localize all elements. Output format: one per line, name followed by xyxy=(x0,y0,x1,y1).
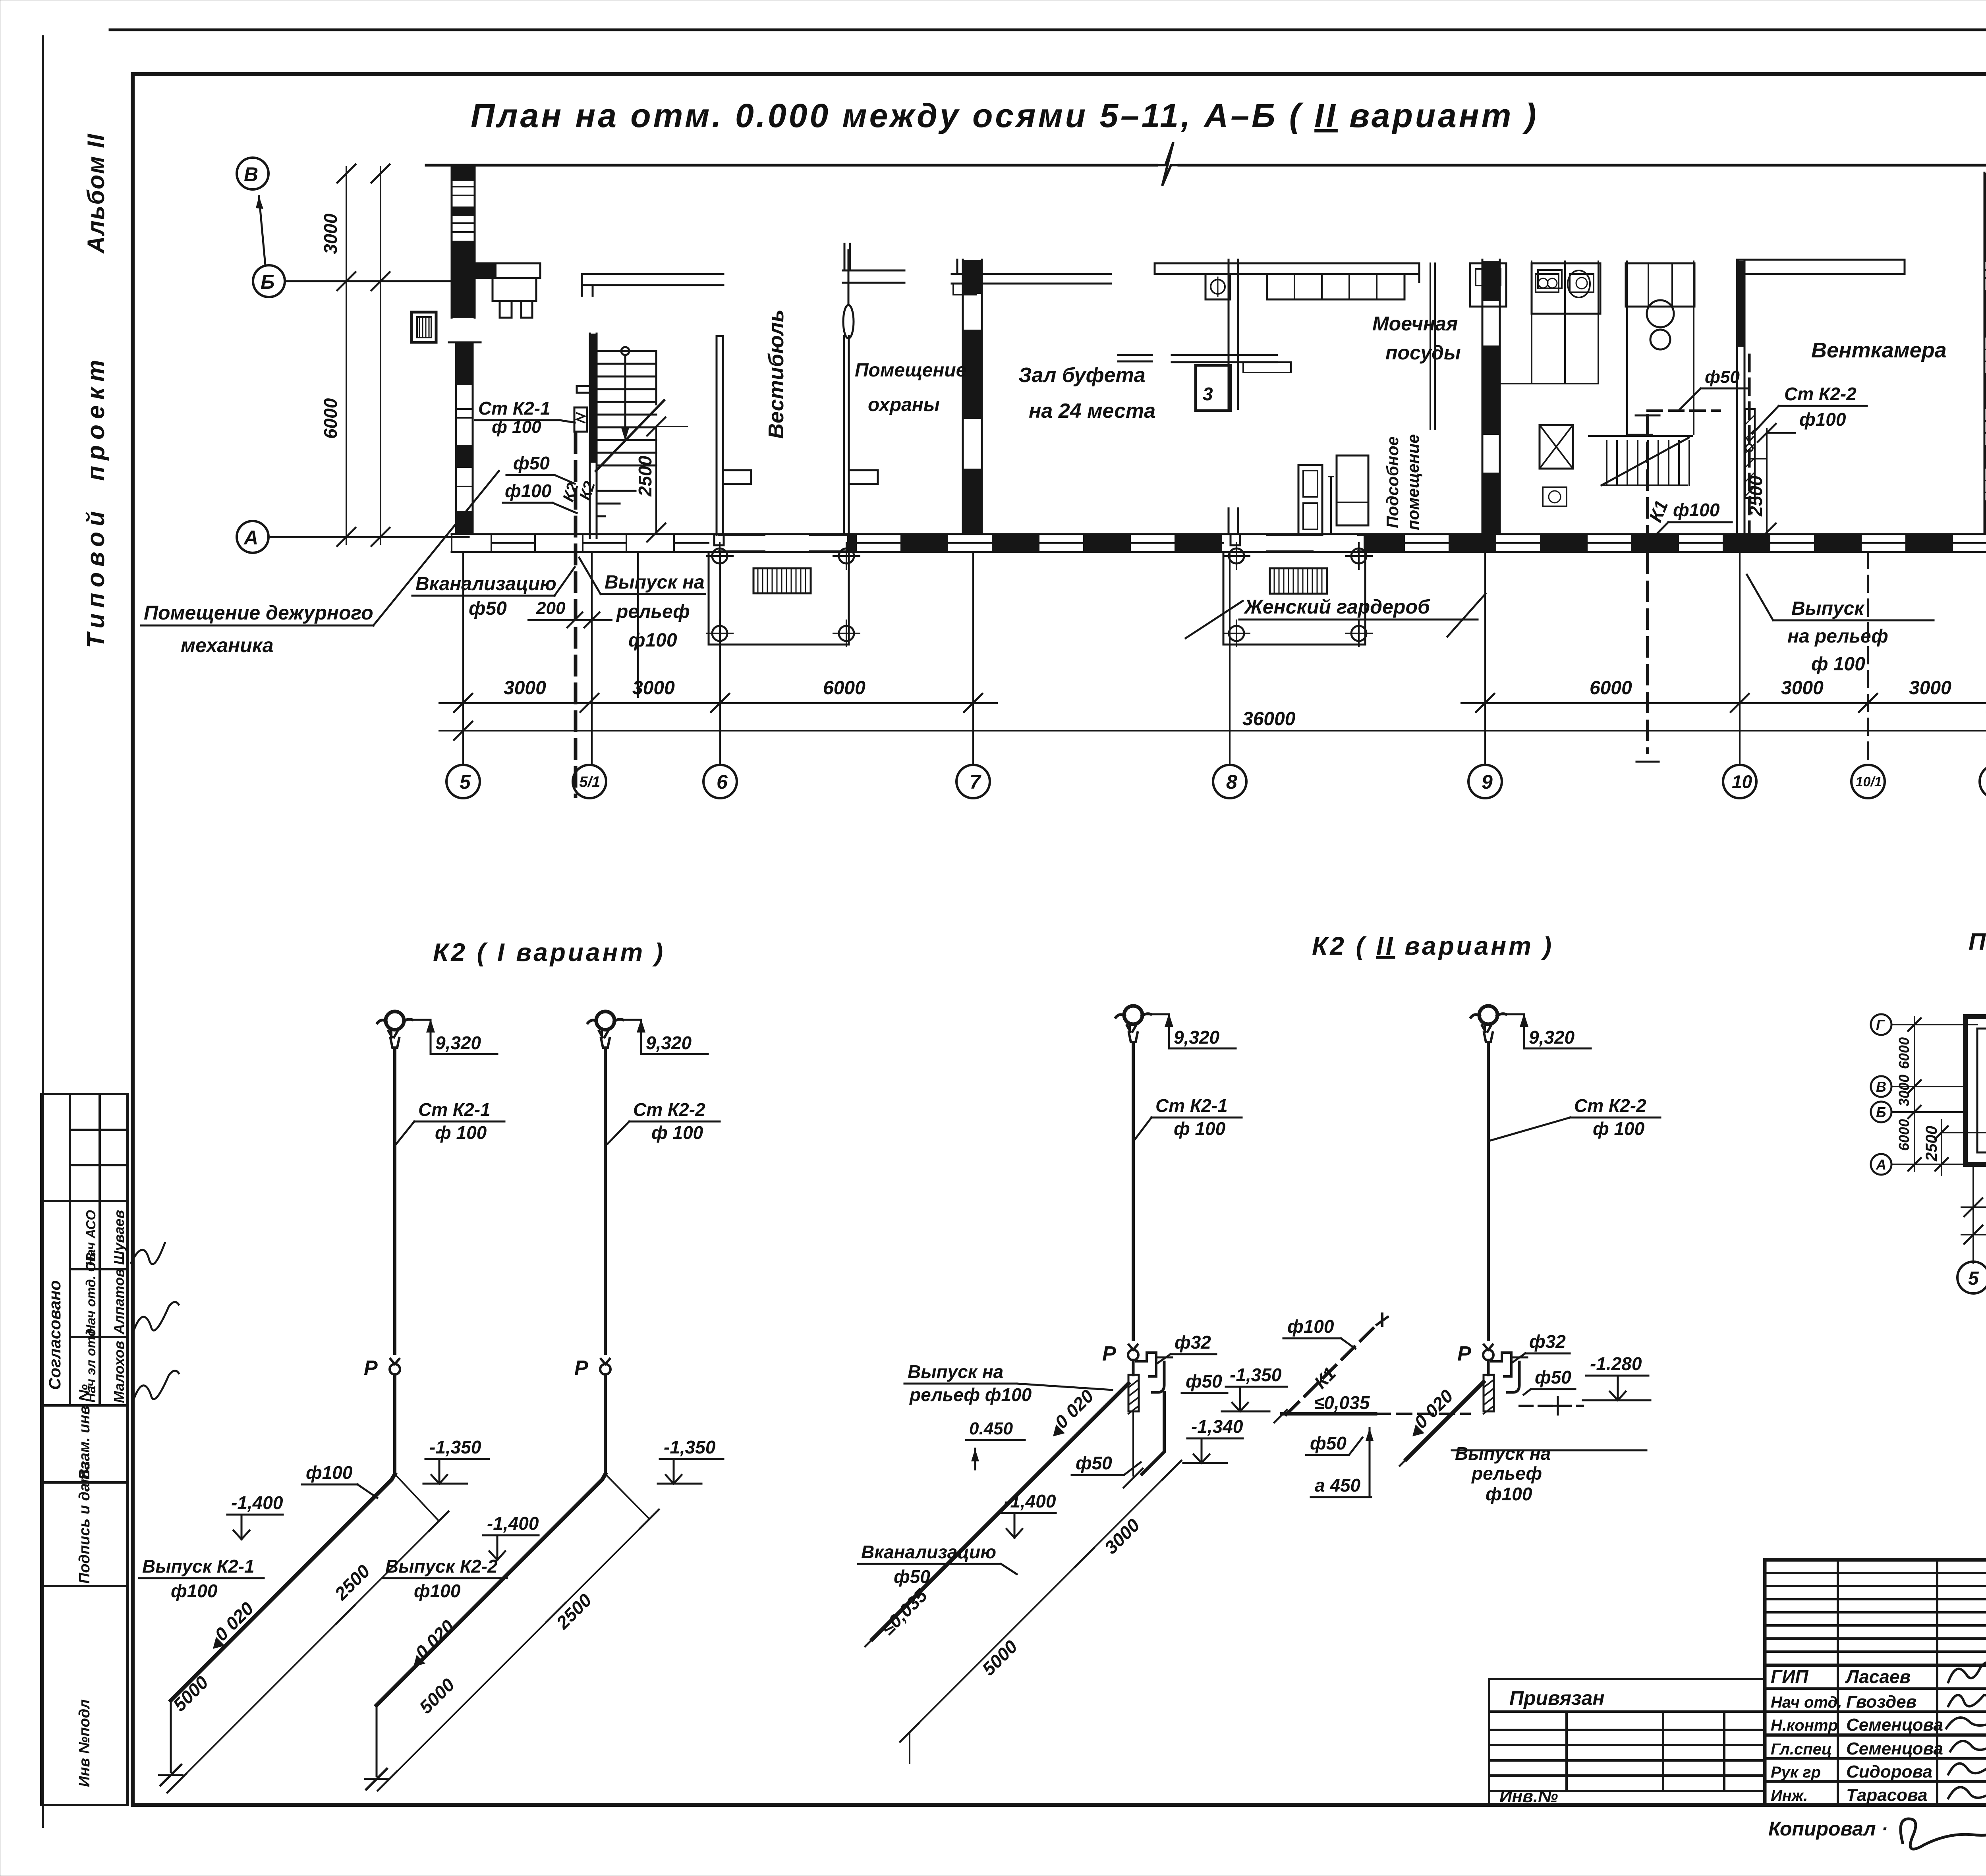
svg-text:В: В xyxy=(244,163,258,185)
svg-text:5: 5 xyxy=(460,771,471,793)
svg-text:Согласовано: Согласовано xyxy=(45,1280,64,1390)
svg-text:ф50: ф50 xyxy=(1186,1371,1222,1392)
svg-text:Сидорова: Сидорова xyxy=(1846,1762,1932,1781)
svg-text:Тарасова: Тарасова xyxy=(1846,1785,1928,1805)
svg-text:В: В xyxy=(1876,1079,1886,1095)
svg-text:Подпись и дата: Подпись и дата xyxy=(76,1461,93,1584)
svg-text:Вестибюль: Вестибюль xyxy=(764,309,788,439)
svg-text:9,320: 9,320 xyxy=(1529,1027,1575,1048)
svg-text:10: 10 xyxy=(1732,772,1752,792)
svg-text:ф32: ф32 xyxy=(1175,1332,1211,1353)
svg-text:рельеф: рельеф xyxy=(1471,1463,1542,1484)
svg-text:Семенцова: Семенцова xyxy=(1846,1739,1943,1758)
svg-text:Шуваев: Шуваев xyxy=(111,1210,127,1265)
svg-text:6000: 6000 xyxy=(1896,1119,1912,1151)
svg-text:План кровли: План кровли xyxy=(1969,928,1986,955)
svg-text:2500: 2500 xyxy=(1923,1126,1940,1162)
svg-text:ф100: ф100 xyxy=(1486,1484,1532,1504)
svg-text:Помещение дежурного: Помещение дежурного xyxy=(144,602,373,624)
svg-text:Г: Г xyxy=(1876,1017,1886,1033)
svg-text:-1,340: -1,340 xyxy=(1191,1416,1243,1437)
svg-text:ф50: ф50 xyxy=(1076,1453,1112,1473)
svg-text:ф 100: ф 100 xyxy=(1811,654,1865,675)
svg-text:Типовой проект: Типовой проект xyxy=(82,354,110,648)
svg-text:Р: Р xyxy=(1102,1342,1116,1365)
svg-text:Ст К2-2: Ст К2-2 xyxy=(1574,1095,1646,1116)
svg-text:Б: Б xyxy=(1876,1104,1886,1120)
svg-text:Венткамера: Венткамера xyxy=(1811,338,1947,362)
svg-text:посуды: посуды xyxy=(1385,342,1461,364)
svg-text:6000: 6000 xyxy=(823,677,865,699)
svg-text:8: 8 xyxy=(1226,771,1237,793)
svg-text:К2 ( I вариант ): К2 ( I вариант ) xyxy=(433,938,665,967)
svg-text:А: А xyxy=(1876,1156,1886,1173)
svg-text:6: 6 xyxy=(717,771,728,793)
svg-text:-1.280: -1.280 xyxy=(1590,1353,1642,1374)
svg-text:помещение: помещение xyxy=(1404,434,1422,530)
svg-text:2500: 2500 xyxy=(552,1590,596,1633)
svg-text:ф 100: ф 100 xyxy=(1593,1118,1645,1139)
svg-text:ф32: ф32 xyxy=(1529,1331,1566,1352)
svg-text:Гл.спец: Гл.спец xyxy=(1771,1741,1832,1758)
svg-text:-1,350: -1,350 xyxy=(429,1437,481,1457)
svg-text:Подсобное: Подсобное xyxy=(1383,436,1402,528)
svg-text:Выпуск на: Выпуск на xyxy=(605,572,705,593)
svg-text:2500: 2500 xyxy=(635,455,655,497)
svg-text:Ст К2-1: Ст К2-1 xyxy=(478,398,551,419)
svg-text:0.450: 0.450 xyxy=(969,1419,1013,1438)
svg-text:-1,400: -1,400 xyxy=(1004,1491,1056,1511)
svg-text:ф100: ф100 xyxy=(1799,409,1846,430)
svg-text:Альбом II: Альбом II xyxy=(83,133,109,254)
svg-text:ф 100: ф 100 xyxy=(492,417,541,437)
svg-text:Помещение: Помещение xyxy=(855,360,966,381)
svg-text:7: 7 xyxy=(970,771,981,793)
svg-text:3000: 3000 xyxy=(1781,677,1824,699)
svg-text:Р: Р xyxy=(364,1357,378,1380)
svg-text:рельеф ф100: рельеф ф100 xyxy=(909,1384,1032,1405)
svg-text:ГИП: ГИП xyxy=(1771,1666,1808,1687)
svg-text:ф 100: ф 100 xyxy=(651,1122,703,1143)
svg-text:А: А xyxy=(243,527,258,549)
svg-text:ф 100: ф 100 xyxy=(1174,1118,1226,1139)
svg-text:3000: 3000 xyxy=(504,677,546,699)
svg-text:9,320: 9,320 xyxy=(1174,1027,1220,1048)
svg-text:5: 5 xyxy=(1968,1268,1979,1289)
svg-text:Выпуск: Выпуск xyxy=(1791,598,1865,619)
svg-text:Женский гардероб: Женский гардероб xyxy=(1243,596,1431,618)
svg-text:ф50: ф50 xyxy=(469,598,507,619)
svg-text:ф100: ф100 xyxy=(1673,500,1720,520)
svg-text:9,320: 9,320 xyxy=(435,1033,481,1053)
svg-text:6000: 6000 xyxy=(1590,677,1632,699)
svg-text:Алпатов: Алпатов xyxy=(111,1268,127,1335)
svg-text:Инж.: Инж. xyxy=(1771,1787,1808,1805)
svg-text:2500: 2500 xyxy=(330,1561,374,1604)
svg-text:6000: 6000 xyxy=(1896,1037,1912,1069)
svg-text:рельеф: рельеф xyxy=(616,601,690,622)
svg-text:Копировал ·: Копировал · xyxy=(1768,1818,1888,1840)
svg-text:ф100: ф100 xyxy=(505,481,552,501)
svg-text:Вканализацию: Вканализацию xyxy=(415,573,556,594)
svg-text:ф50: ф50 xyxy=(894,1566,930,1587)
svg-text:ф50: ф50 xyxy=(513,453,550,473)
svg-text:План на отм. 0.000 между: План на отм. 0.000 между осями 5–11, А–Б… xyxy=(471,97,1539,134)
svg-text:Ст К2-1: Ст К2-1 xyxy=(418,1099,491,1120)
svg-text:9: 9 xyxy=(1482,771,1493,793)
svg-text:Ст К2-2: Ст К2-2 xyxy=(633,1099,705,1120)
svg-text:Зал буфета: Зал буфета xyxy=(1018,364,1146,387)
svg-text:ф100: ф100 xyxy=(1287,1316,1334,1337)
svg-text:Привязан: Привязан xyxy=(1509,1687,1605,1709)
svg-text:-1,350: -1,350 xyxy=(664,1437,716,1457)
svg-text:36000: 36000 xyxy=(1242,708,1296,730)
svg-text:на 24 места: на 24 места xyxy=(1029,400,1155,423)
svg-text:Рук гр: Рук гр xyxy=(1771,1764,1821,1781)
svg-text:механика: механика xyxy=(181,634,274,656)
svg-text:на рельеф: на рельеф xyxy=(1787,626,1888,647)
svg-text:-1,400: -1,400 xyxy=(231,1492,283,1513)
svg-text:ф 100: ф 100 xyxy=(435,1122,487,1143)
svg-text:6000: 6000 xyxy=(320,398,341,439)
svg-text:ф50: ф50 xyxy=(1310,1433,1347,1453)
svg-text:Гвоздев: Гвоздев xyxy=(1846,1692,1916,1712)
svg-text:Выпуск К2-2: Выпуск К2-2 xyxy=(385,1556,498,1577)
svg-text:ф100: ф100 xyxy=(414,1581,461,1601)
svg-text:5/1: 5/1 xyxy=(579,774,600,791)
svg-text:Выпуск К2-1: Выпуск К2-1 xyxy=(142,1556,255,1577)
svg-text:3000: 3000 xyxy=(1909,677,1951,699)
svg-text:Выпуск на: Выпуск на xyxy=(908,1361,1003,1382)
svg-text:ф100: ф100 xyxy=(171,1581,218,1601)
svg-text:3: 3 xyxy=(1203,384,1213,404)
svg-text:Инв №подл: Инв №подл xyxy=(76,1699,93,1787)
svg-text:ф100: ф100 xyxy=(306,1462,353,1483)
svg-text:≤0,035: ≤0,035 xyxy=(877,1585,931,1639)
svg-text:Р: Р xyxy=(574,1357,588,1380)
svg-text:5000: 5000 xyxy=(415,1674,458,1718)
svg-text:Малохов: Малохов xyxy=(111,1341,127,1403)
svg-text:ф50: ф50 xyxy=(1535,1367,1571,1388)
svg-text:Ст К2-2: Ст К2-2 xyxy=(1784,384,1857,404)
svg-text:Р: Р xyxy=(1457,1342,1471,1365)
svg-text:Инв.№: Инв.№ xyxy=(1499,1787,1558,1806)
svg-text:ф100: ф100 xyxy=(628,630,677,651)
svg-text:К2: К2 xyxy=(576,479,599,502)
svg-text:К2 ( II вариант ): К2 ( II вариант ) xyxy=(1312,932,1554,960)
svg-text:Н.контр: Н.контр xyxy=(1771,1717,1838,1734)
svg-text:Моечная: Моечная xyxy=(1372,313,1458,335)
svg-text:3000: 3000 xyxy=(1100,1515,1144,1558)
svg-text:Нач отд. ОВ: Нач отд. ОВ xyxy=(83,1252,98,1334)
svg-text:Нач отд.: Нач отд. xyxy=(1771,1694,1842,1711)
svg-text:ф50: ф50 xyxy=(1705,367,1740,387)
svg-text:Ст К2-1: Ст К2-1 xyxy=(1155,1095,1228,1116)
svg-text:Выпуск на: Выпуск на xyxy=(1455,1443,1551,1464)
svg-text:-1,400: -1,400 xyxy=(487,1513,539,1534)
svg-text:Б: Б xyxy=(261,271,274,293)
svg-text:a 450: a 450 xyxy=(1315,1475,1361,1496)
svg-text:охраны: охраны xyxy=(868,394,940,415)
svg-text:0 020: 0 020 xyxy=(1051,1386,1097,1432)
svg-text:9,320: 9,320 xyxy=(646,1033,692,1053)
svg-text:2500: 2500 xyxy=(1745,475,1766,517)
svg-text:Ласаев: Ласаев xyxy=(1845,1666,1911,1687)
svg-text:3000: 3000 xyxy=(320,213,341,254)
svg-text:0 020: 0 020 xyxy=(1410,1386,1457,1432)
svg-text:3000: 3000 xyxy=(1896,1075,1912,1106)
svg-text:≤0,035: ≤0,035 xyxy=(1314,1392,1370,1413)
svg-text:0 020: 0 020 xyxy=(411,1616,458,1663)
svg-text:Семенцова: Семенцова xyxy=(1846,1715,1943,1735)
svg-text:200: 200 xyxy=(536,598,566,618)
svg-text:-1,350: -1,350 xyxy=(1230,1365,1282,1385)
svg-text:Вканализацию: Вканализацию xyxy=(861,1542,996,1562)
svg-text:3000: 3000 xyxy=(632,677,675,699)
svg-text:10/1: 10/1 xyxy=(1856,774,1882,789)
